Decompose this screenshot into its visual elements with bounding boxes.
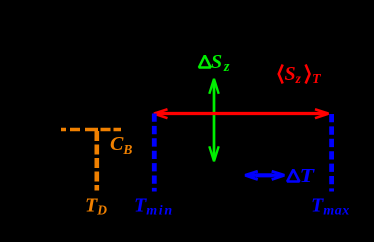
svg-text:Tmax: Tmax — [311, 195, 350, 219]
svg-text:CB: CB — [110, 133, 132, 157]
wire green vertical double-arrow line — [213, 80, 216, 161]
green arrowhead top — [209, 79, 218, 94]
label Delta S_z (green) — [199, 56, 211, 68]
wire blue dashed vertical line at Tmax — [329, 114, 334, 192]
svg-text:Tmin: Tmin — [134, 195, 174, 219]
svg-text:T: T — [300, 165, 315, 187]
blue arrowhead right — [272, 171, 285, 179]
svg-text:Sz: Sz — [211, 51, 230, 75]
svg-text:T: T — [312, 72, 322, 87]
blue arrowhead left — [245, 171, 258, 179]
red arrowhead right — [315, 109, 329, 118]
wire orange dashed horizontal line — [61, 128, 121, 131]
wire blue horizontal double-arrow line (Delta T) — [247, 174, 282, 177]
svg-text:Sz: Sz — [285, 63, 302, 86]
wire blue arrow thick middle — [256, 173, 273, 177]
wire orange dashed vertical line — [95, 131, 100, 191]
label Delta T (blue) — [287, 170, 299, 182]
green arrowhead bottom — [209, 146, 218, 161]
svg-text:TD: TD — [85, 195, 107, 218]
wire blue dashed vertical line at Tmin — [152, 114, 157, 192]
red arrowhead left — [154, 109, 168, 118]
wire red horizontal double-arrow line — [155, 112, 328, 115]
label <S_z>_T (red) — [279, 65, 283, 84]
